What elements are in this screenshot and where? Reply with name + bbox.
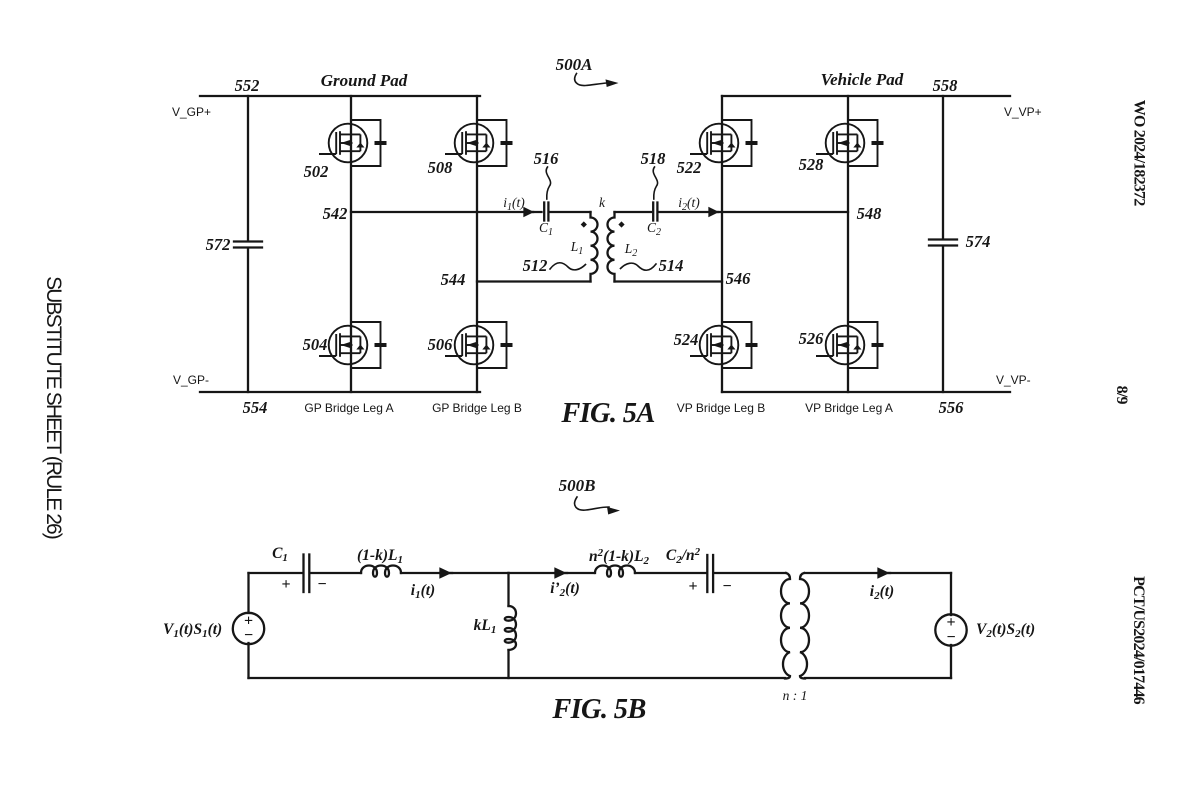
svg-text:i2(t): i2(t) bbox=[678, 195, 700, 213]
svg-text:572: 572 bbox=[206, 235, 231, 254]
transistor 506 bbox=[445, 322, 513, 368]
capacitor C1 516 bbox=[544, 203, 548, 221]
inductor kL1 bbox=[505, 606, 516, 650]
svg-text:+: + bbox=[281, 576, 290, 593]
svg-text:514: 514 bbox=[659, 256, 684, 275]
transformer secondary winding bbox=[800, 573, 809, 679]
svg-text:n : 1: n : 1 bbox=[783, 688, 808, 703]
svg-text:i2(t): i2(t) bbox=[870, 583, 894, 602]
wire L2 to C2 bbox=[615, 211, 652, 213]
svg-text:VP Bridge Leg B: VP Bridge Leg B bbox=[677, 401, 766, 415]
svg-text:V_GP-: V_GP- bbox=[173, 373, 209, 387]
svg-text:Ground Pad: Ground Pad bbox=[321, 71, 408, 90]
leader squiggle 514 bbox=[621, 263, 657, 270]
wire inductor to C2/n2 bbox=[635, 572, 706, 574]
wire V_VP+ top rail 558 bbox=[722, 95, 1010, 97]
svg-text:VP Bridge Leg A: VP Bridge Leg A bbox=[805, 401, 893, 415]
svg-text:502: 502 bbox=[304, 162, 329, 181]
wire bottom rail left bbox=[249, 677, 786, 679]
svg-text:L1: L1 bbox=[570, 239, 584, 257]
svg-text:506: 506 bbox=[428, 335, 454, 354]
svg-text:544: 544 bbox=[441, 270, 466, 289]
wire inductor to node bbox=[401, 572, 509, 574]
svg-text:518: 518 bbox=[641, 149, 666, 168]
svg-text:Vehicle Pad: Vehicle Pad bbox=[821, 70, 904, 89]
svg-text:C2/n2: C2/n2 bbox=[666, 546, 701, 566]
svg-text:554: 554 bbox=[243, 398, 268, 417]
wire GP bridge leg A bbox=[350, 96, 352, 392]
wire node to inductor n2 bbox=[509, 572, 595, 574]
wire source V2 top lead bbox=[950, 573, 952, 615]
svg-text:574: 574 bbox=[966, 232, 991, 251]
svg-text:504: 504 bbox=[303, 335, 328, 354]
wire VP bridge leg A bbox=[847, 96, 849, 392]
wire V_VP- bottom rail 556 bbox=[722, 391, 1010, 393]
svg-text:524: 524 bbox=[674, 330, 699, 349]
svg-text:(1-k)L1: (1-k)L1 bbox=[357, 547, 403, 566]
arrow i1(t) bbox=[525, 209, 534, 216]
wire node 542 bbox=[351, 211, 542, 213]
svg-text:WO 2024/182372: WO 2024/182372 bbox=[1131, 100, 1148, 206]
source V1(t)S1(t) bbox=[233, 613, 264, 644]
inductor (1-k)L1 bbox=[361, 566, 401, 577]
transformer primary winding bbox=[781, 573, 790, 679]
svg-text:542: 542 bbox=[323, 204, 348, 223]
svg-text:kL1: kL1 bbox=[474, 617, 497, 636]
svg-text:8/9: 8/9 bbox=[1113, 386, 1130, 405]
svg-text:−: − bbox=[722, 578, 731, 595]
transistor 522 bbox=[690, 120, 758, 166]
wire kL1 bottom lead bbox=[507, 650, 509, 678]
svg-text:C2: C2 bbox=[647, 220, 661, 238]
wire C1 to inductor bbox=[311, 572, 361, 574]
transistor 524 bbox=[690, 322, 758, 368]
arrow leader 500B bbox=[575, 497, 609, 510]
inductor L1 512 bbox=[591, 212, 598, 282]
capacitor 574 bbox=[929, 240, 957, 246]
wire node 546 bbox=[615, 280, 723, 282]
transistor 526 bbox=[816, 322, 884, 368]
svg-text:V_VP+: V_VP+ bbox=[1004, 105, 1042, 119]
svg-text:546: 546 bbox=[726, 269, 752, 288]
svg-text:556: 556 bbox=[939, 398, 965, 417]
svg-text:−: − bbox=[946, 629, 955, 646]
svg-text:i1(t): i1(t) bbox=[411, 582, 435, 601]
svg-text:+: + bbox=[688, 578, 697, 595]
wire V_GP+ top rail 552 bbox=[200, 95, 480, 97]
svg-text:V2(t)S2(t): V2(t)S2(t) bbox=[976, 621, 1035, 640]
svg-text:500B: 500B bbox=[559, 476, 596, 495]
transistor 504 bbox=[319, 322, 387, 368]
wire capacitor-574 branch lower bbox=[942, 246, 944, 392]
inductor L2 514 bbox=[608, 212, 615, 282]
arrow i1(t) bbox=[440, 569, 452, 577]
svg-text:V_VP-: V_VP- bbox=[996, 373, 1031, 387]
svg-text:SUBSTITUTE SHEET (RULE 26): SUBSTITUTE SHEET (RULE 26) bbox=[42, 276, 65, 539]
svg-text:GP Bridge Leg A: GP Bridge Leg A bbox=[304, 401, 393, 415]
wire node 544 bbox=[477, 280, 591, 282]
wire source V1 bottom lead bbox=[247, 643, 249, 678]
capacitor C2/n2 bbox=[707, 555, 713, 592]
leader squiggle 516 bbox=[546, 167, 550, 199]
svg-text:V_GP+: V_GP+ bbox=[172, 105, 211, 119]
transistor 502 bbox=[319, 120, 387, 166]
capacitor C2 518 bbox=[653, 203, 657, 221]
svg-text:552: 552 bbox=[235, 76, 260, 95]
node dot L1 polarity bbox=[581, 221, 587, 227]
capacitor 572 bbox=[234, 242, 262, 248]
svg-text:516: 516 bbox=[534, 149, 560, 168]
transistor 528 bbox=[816, 120, 884, 166]
wire C1 to L1 bbox=[551, 211, 591, 213]
wire capacitor-574 branch upper bbox=[942, 96, 944, 239]
svg-text:−: − bbox=[244, 627, 253, 644]
svg-text:512: 512 bbox=[523, 256, 548, 275]
wire secondary top rail bbox=[805, 572, 951, 574]
capacitor C1 bbox=[304, 555, 310, 593]
wire V_GP- bottom rail 554 bbox=[200, 391, 480, 393]
leader squiggle 512 bbox=[550, 263, 586, 270]
wire source V2 bottom lead bbox=[950, 645, 952, 678]
inductor kL1 vertical branch top bbox=[507, 573, 509, 606]
svg-text:n2(1-k)L2: n2(1-k)L2 bbox=[589, 547, 650, 567]
svg-text:548: 548 bbox=[857, 204, 882, 223]
arrow i'2(t) bbox=[555, 569, 567, 577]
leader squiggle 518 bbox=[653, 167, 657, 199]
svg-text:C1: C1 bbox=[539, 220, 553, 238]
wire capacitor-572 branch upper bbox=[247, 96, 249, 241]
svg-text:i1(t): i1(t) bbox=[503, 195, 525, 213]
node dot L2 polarity bbox=[618, 221, 624, 227]
svg-text:558: 558 bbox=[933, 76, 958, 95]
arrow i2(t) bbox=[878, 569, 890, 577]
svg-text:L2: L2 bbox=[624, 241, 638, 259]
svg-text:500A: 500A bbox=[556, 55, 593, 74]
wire VP bridge leg B bbox=[721, 96, 723, 392]
transistor 508 bbox=[445, 120, 513, 166]
wire secondary bottom rail bbox=[805, 677, 951, 679]
wire C2/n2 to transformer bbox=[715, 572, 786, 574]
wire GP bridge leg B bbox=[476, 96, 478, 392]
svg-text:FIG. 5A: FIG. 5A bbox=[560, 398, 654, 429]
source V2(t)S2(t) bbox=[935, 614, 966, 645]
wire node 548 bbox=[660, 211, 849, 213]
wire top rail to C1 bbox=[249, 572, 302, 574]
svg-text:k: k bbox=[599, 195, 606, 210]
svg-text:PCT/US2024/017446: PCT/US2024/017446 bbox=[1130, 576, 1147, 705]
arrow i2(t) bbox=[710, 209, 719, 216]
svg-text:−: − bbox=[317, 576, 326, 593]
svg-text:V1(t)S1(t): V1(t)S1(t) bbox=[163, 621, 222, 640]
svg-text:i’2(t): i’2(t) bbox=[550, 580, 580, 599]
wire capacitor-572 branch lower bbox=[247, 248, 249, 392]
svg-text:C1: C1 bbox=[272, 545, 288, 564]
arrow leader 500A bbox=[575, 74, 608, 86]
svg-text:GP Bridge Leg B: GP Bridge Leg B bbox=[432, 401, 522, 415]
wire source V1 top lead bbox=[247, 573, 249, 613]
svg-text:508: 508 bbox=[428, 158, 453, 177]
svg-text:FIG. 5B: FIG. 5B bbox=[551, 694, 645, 725]
inductor n2(1-k)L2 bbox=[595, 566, 635, 577]
svg-text:522: 522 bbox=[677, 158, 702, 177]
svg-text:526: 526 bbox=[799, 329, 825, 348]
svg-text:528: 528 bbox=[799, 155, 824, 174]
